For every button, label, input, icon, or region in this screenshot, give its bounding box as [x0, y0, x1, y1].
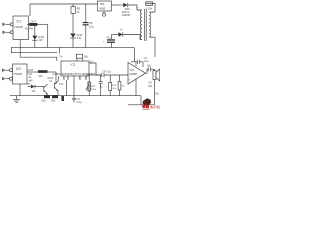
diode VD6 [112, 34, 119, 36]
IC3 bottom pin stubs [63, 76, 65, 80]
IC1 label [14, 20, 23, 29]
zener VZ2 [70, 34, 75, 38]
svg-text:10k: 10k [84, 55, 89, 59]
svg-text:IC2: IC2 [16, 67, 21, 71]
transistor VT2 [43, 86, 45, 92]
svg-text:0.1μ: 0.1μ [77, 100, 83, 104]
svg-text:47μ: 47μ [106, 36, 111, 40]
regulator U1 7805 box [98, 1, 112, 11]
svg-text:0.15A: 0.15A [146, 8, 153, 11]
pin number 13 [90, 60, 93, 63]
svg-text:TWH8: TWH8 [14, 72, 23, 76]
transistor VT1 [54, 83, 56, 89]
wire IC1 out [27, 23, 29, 25]
resistor R6 [119, 75, 121, 82]
wire ground bus [10, 95, 141, 97]
capacitor C6 [85, 4, 87, 22]
op-amp U2 LM386 [128, 63, 146, 85]
OUT label IC2 + resistor R2 [28, 68, 34, 72]
regulator ground pin circle [103, 11, 105, 13]
resistor R3 (filled, on rail) [44, 95, 50, 98]
svg-text:VD: VD [27, 83, 31, 86]
wire node down to VT1 [55, 72, 57, 84]
svg-text:1W: 1W [77, 36, 81, 40]
diode VD5 [112, 4, 124, 6]
dark block resistor below rail [61, 96, 64, 101]
svg-text:T: T [136, 7, 138, 11]
wire IC3 output [89, 63, 101, 75]
probe electrode D [6, 78, 10, 80]
svg-text:OUT: OUT [28, 68, 34, 72]
op-amp ground pin [135, 79, 137, 96]
resistor R5 vertical [72, 4, 74, 7]
svg-text:10μ: 10μ [147, 63, 152, 67]
svg-text:1N4001: 1N4001 [122, 13, 132, 17]
wire audio path [87, 74, 102, 76]
probe electrode A [6, 23, 10, 25]
IC1 input terminal circles [10, 23, 13, 26]
svg-text:TWH8: TWH8 [14, 25, 23, 29]
resistor R4 (filled, on rail) [52, 95, 58, 98]
diode VD7 [28, 86, 32, 88]
capacitor C7 47u [111, 35, 113, 40]
svg-text:IC4: IC4 [130, 68, 135, 72]
capacitor C5 [102, 69, 112, 73]
fuse 0.15A [146, 2, 153, 6]
svg-text:C5 0.1μ: C5 0.1μ [102, 69, 112, 73]
svg-text:8Ω: 8Ω [149, 84, 152, 88]
transformer T1 [140, 10, 141, 40]
svg-text:电子制作: 电子制作 [150, 104, 160, 109]
wire mid bus (common rail) [11, 46, 134, 48]
svg-text:IC1: IC1 [17, 20, 22, 24]
wire IC1 top drop [29, 4, 31, 16]
wire IC1 bottom to IC3 [19, 40, 21, 58]
wire top bus [30, 3, 98, 5]
capacitor C4 [131, 61, 137, 63]
ground symbol [16, 96, 18, 100]
red watermark logo [142, 98, 163, 110]
capacitor C9 output [146, 69, 149, 73]
svg-text:VT1: VT1 [59, 82, 64, 86]
svg-text:+: + [129, 78, 131, 82]
wire fuse to primary [151, 4, 155, 13]
node Tw [59, 47, 61, 53]
IC1 TWH8778 box [13, 16, 29, 40]
svg-text:1W: 1W [39, 38, 43, 42]
svg-text:IC3: IC3 [71, 62, 76, 66]
wire bottom-right rail segment [128, 104, 155, 106]
svg-text:Tw: Tw [59, 55, 62, 58]
svg-text:M05: M05 [100, 7, 106, 11]
resistor R2 (filled) [27, 71, 38, 73]
svg-text:78L: 78L [100, 2, 105, 6]
oscillator capacitor above IC3 [76, 58, 78, 61]
svg-text:8Ω: 8Ω [155, 91, 158, 95]
wire rail to C4 [134, 47, 136, 61]
svg-text:-: - [129, 68, 130, 72]
wire bus junction drop [140, 96, 142, 105]
capacitor C3 below rail [73, 96, 75, 99]
resistor R1 (filled) [29, 23, 37, 26]
svg-text:0.1μ: 0.1μ [89, 24, 95, 28]
svg-text:10μ: 10μ [144, 59, 149, 63]
svg-text:300: 300 [51, 99, 56, 103]
pin numbers IC3 [63, 77, 87, 80]
svg-text:R1 4W: R1 4W [25, 26, 33, 30]
svg-text:51k: 51k [42, 99, 47, 103]
wire IC2 bottom to ground bus [19, 84, 21, 96]
potentiometer RP1 [88, 75, 90, 82]
zener VZ1 [34, 26, 36, 35]
speaker YD [153, 71, 156, 80]
wire drop to bus [47, 24, 49, 47]
IC3 CD4066 box [61, 61, 89, 76]
svg-text:4W: 4W [39, 74, 43, 78]
IC2 TWH8778 box [13, 64, 28, 84]
capacitor C2 [100, 75, 102, 82]
OUT label IC1 [30, 20, 36, 24]
svg-text:4W: 4W [29, 78, 33, 82]
svg-text:LM386: LM386 [129, 72, 137, 76]
IC2 input terminal circles [10, 69, 13, 72]
resistor R10 [109, 75, 111, 83]
probe electrode C [6, 69, 10, 71]
op-amp power pin [135, 62, 137, 66]
probe electrode B [6, 31, 10, 33]
